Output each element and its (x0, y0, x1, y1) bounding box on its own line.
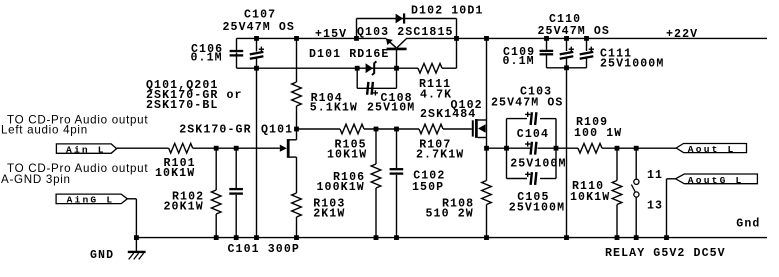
wire Q102 source down (486, 138, 488, 149)
capacitor C110 branch (566, 38, 568, 51)
svg-text:2SK1484: 2SK1484 (420, 108, 476, 121)
wire D102 right drop / R111 to rail (456, 19, 458, 69)
resistor R105 (340, 124, 364, 134)
svg-text:25V10M: 25V10M (367, 101, 415, 114)
svg-text:100 1W: 100 1W (574, 127, 622, 140)
svg-text:25V47M OS: 25V47M OS (491, 97, 563, 110)
wire +15V rail (237, 37, 387, 39)
svg-text:+15V: +15V (315, 28, 347, 41)
svg-text:5.1K1W: 5.1K1W (310, 101, 358, 114)
svg-text:C104: C104 (517, 128, 549, 141)
svg-text:25V47M OS: 25V47M OS (538, 25, 610, 38)
svg-text:RELAY G5V2 DC5V: RELAY G5V2 DC5V (605, 247, 726, 260)
resistor R103 (292, 193, 302, 217)
transistor Q103 (386, 39, 396, 48)
svg-text:25V1000M: 25V1000M (600, 58, 664, 71)
flag Ain L (56, 144, 116, 153)
svg-text:100K1W: 100K1W (317, 181, 365, 194)
svg-text:25V47M OS: 25V47M OS (223, 21, 295, 34)
resistor R108 branch (486, 148, 488, 180)
svg-text:C110: C110 (549, 13, 581, 26)
svg-text:2SK170-BL: 2SK170-BL (146, 99, 218, 112)
flag AinG L (56, 194, 127, 204)
wire +22V rail (406, 37, 767, 39)
resistor R104 branch (296, 38, 298, 82)
svg-text:11: 11 (647, 169, 663, 182)
svg-text:2K1W: 2K1W (313, 207, 345, 220)
svg-text:Left audio 4pin: Left audio 4pin (1, 124, 88, 137)
svg-text:2.7K1W: 2.7K1W (416, 149, 464, 162)
svg-text:20K1W: 20K1W (164, 201, 204, 214)
resistor R111 (418, 63, 442, 73)
svg-text:C101 300P: C101 300P (228, 243, 300, 256)
svg-text:Gnd: Gnd (736, 218, 760, 231)
svg-text:13: 13 (647, 199, 663, 212)
resistor R109 (578, 143, 602, 153)
svg-text:10K1W: 10K1W (570, 191, 610, 204)
junction dots (254, 36, 259, 41)
wire AoutG to ground (667, 178, 676, 180)
svg-text:+22V: +22V (666, 28, 698, 41)
capacitor C107 (250, 52, 264, 55)
capacitor C111 branch (586, 38, 588, 51)
resistor R101 (169, 143, 193, 153)
wire caps bottom (547, 67, 587, 69)
flag Aout L (676, 144, 746, 153)
svg-text:25V100M: 25V100M (509, 202, 565, 215)
wire R111 line (397, 67, 419, 69)
capacitor C109 branch (546, 38, 548, 49)
capacitor C102 branch (396, 129, 398, 168)
wire D102 bypass top (357, 18, 457, 20)
flag AoutG L (676, 174, 758, 184)
resistor R102 branch (215, 148, 217, 190)
relay contact (635, 148, 637, 179)
capacitor block C103/C104/C105 (506, 119, 508, 179)
svg-text:10K1W: 10K1W (155, 167, 195, 180)
svg-text:C107: C107 (244, 9, 276, 22)
svg-text:D102 10D1: D102 10D1 (411, 5, 483, 18)
svg-text:25V100M: 25V100M (510, 157, 566, 170)
capacitor C101 branch (235, 148, 237, 188)
wire output line (487, 147, 531, 149)
svg-text:D101 RD16E: D101 RD16E (309, 48, 389, 61)
resistor R110 branch (616, 148, 618, 180)
svg-text:510 2W: 510 2W (426, 207, 474, 220)
svg-text:0.1M: 0.1M (503, 55, 535, 68)
resistor R107 (419, 124, 443, 134)
svg-text:Q101: Q101 (261, 124, 293, 137)
svg-text:10K1W: 10K1W (327, 149, 367, 162)
wire gate line (193, 147, 280, 149)
svg-text:GND: GND (90, 249, 114, 262)
svg-text:Aout L: Aout L (688, 144, 736, 155)
svg-text:150P: 150P (412, 181, 444, 194)
wire C106 branch (236, 38, 238, 50)
transistor Q101 (2SK170 JFET) (280, 145, 287, 152)
svg-text:AinG L: AinG L (67, 195, 115, 206)
svg-text:AoutG L: AoutG L (688, 175, 744, 186)
svg-text:0.1M: 0.1M (191, 51, 223, 64)
svg-text:4.7K: 4.7K (420, 88, 452, 101)
svg-text:Ain L: Ain L (66, 144, 106, 155)
wire zener line (237, 67, 397, 69)
wire AinG to ground (127, 198, 136, 200)
capacitor C105 (531, 172, 532, 185)
ground symbol (135, 238, 137, 252)
diode D102 10D1 (396, 14, 403, 24)
svg-text:2SK170-GR: 2SK170-GR (179, 124, 251, 137)
wire caps ground return (566, 68, 568, 238)
wire ground return from C107 (256, 68, 258, 237)
transistor Q102 (2SK1454 MOSFET) (472, 120, 474, 136)
wire Ain to R101 (117, 147, 169, 149)
diode D101 RD16E (366, 63, 373, 73)
capacitor C108 (367, 82, 368, 95)
svg-text:A-GND 3pin: A-GND 3pin (1, 173, 71, 186)
resistor R106 branch (375, 129, 377, 164)
wire Q102 drain up (486, 38, 488, 120)
svg-text:Q103 2SC1815: Q103 2SC1815 (357, 26, 454, 39)
capacitor C103 (531, 112, 532, 125)
wire drain line (297, 128, 341, 130)
wire ground rail (136, 237, 767, 239)
wire C107 branch (256, 38, 258, 51)
wire C108 loop (356, 68, 358, 88)
capacitor C106 (230, 50, 244, 52)
capacitor C104 (in line) (531, 142, 532, 155)
